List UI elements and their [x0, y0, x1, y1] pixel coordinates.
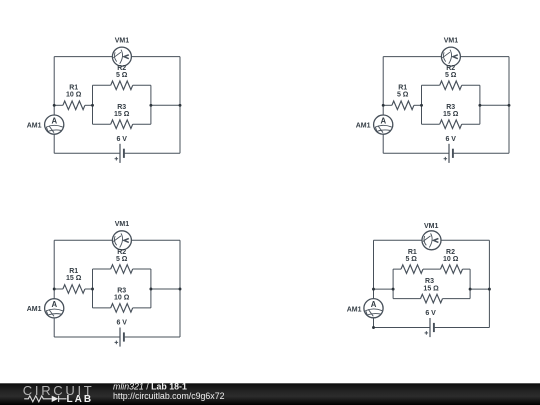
- wire right: [488, 240, 490, 327]
- svg-text:10 Ω: 10 Ω: [66, 92, 82, 99]
- wire left (ammeter to bottom corner): [53, 134, 55, 153]
- wire box top branch: [393, 268, 470, 270]
- svg-text:R1: R1: [69, 85, 78, 92]
- wire box left edge: [392, 269, 394, 299]
- wire R1 to box: [414, 104, 422, 106]
- wire box right edge: [150, 85, 152, 124]
- wire top (right of VM1): [441, 239, 489, 241]
- wire left (ammeter to bottom corner): [53, 318, 55, 337]
- wire R1 to box: [85, 288, 93, 290]
- ammeter AM1: [45, 299, 64, 318]
- voltmeter VM1: [422, 231, 441, 250]
- svg-text:6 V: 6 V: [116, 320, 127, 327]
- resistor R2: [111, 265, 133, 274]
- footer bar: [0, 383, 540, 405]
- svg-text:R2: R2: [446, 65, 455, 72]
- wire node to box: [374, 288, 394, 290]
- node bottom left junction: [372, 326, 375, 329]
- CircuitLab logo diode triangle: [52, 396, 59, 402]
- battery V1 6V: [115, 328, 124, 347]
- wire left (top corner to ammeter): [53, 240, 55, 298]
- node right junction: [488, 288, 491, 291]
- wire right: [179, 57, 181, 154]
- svg-text:6 V: 6 V: [116, 136, 127, 143]
- svg-text:R2: R2: [117, 249, 126, 256]
- ammeter AM1: [374, 115, 393, 134]
- node left junction: [53, 104, 56, 107]
- svg-text:R3: R3: [425, 278, 434, 285]
- wire box to right wire: [151, 104, 180, 106]
- wire box top branch: [422, 84, 480, 86]
- resistor R2: [440, 81, 462, 90]
- node box left: [91, 104, 94, 107]
- node right junction: [508, 104, 511, 107]
- svg-text:AM1: AM1: [27, 306, 42, 313]
- wire top (left of VM1): [54, 239, 112, 241]
- svg-text:R2: R2: [117, 65, 126, 72]
- node box left: [91, 288, 94, 291]
- node box right: [149, 288, 152, 291]
- wire box to right wire: [470, 288, 489, 290]
- wire top (right of VM1): [460, 56, 509, 58]
- wire bottom (to battery): [54, 152, 120, 154]
- svg-text:15 Ω: 15 Ω: [443, 111, 459, 118]
- svg-text:VM1: VM1: [424, 223, 439, 230]
- node right junction: [179, 104, 182, 107]
- node box left: [392, 288, 395, 291]
- voltmeter VM1: [112, 231, 131, 250]
- wire left (ammeter to bottom corner): [373, 318, 375, 328]
- svg-text:5 Ω: 5 Ω: [116, 72, 128, 79]
- wire top (right of VM1): [131, 239, 180, 241]
- wire box right edge: [469, 269, 471, 299]
- wire box top branch: [93, 84, 151, 86]
- wire right: [508, 57, 510, 154]
- ammeter AM1: [364, 299, 383, 318]
- voltmeter VM1: [441, 47, 460, 66]
- svg-text:10 Ω: 10 Ω: [443, 256, 459, 263]
- wire box bottom branch: [93, 307, 151, 309]
- resistor R1: [392, 101, 414, 110]
- wire top (right of VM1): [131, 56, 180, 58]
- resistor R1: [401, 265, 423, 274]
- node right junction: [179, 288, 182, 291]
- svg-text:AM1: AM1: [27, 122, 42, 129]
- svg-text:R2: R2: [446, 249, 455, 256]
- wire box left edge: [421, 85, 423, 124]
- svg-text:AM1: AM1: [356, 122, 371, 129]
- wire box right edge: [150, 269, 152, 308]
- resistor R2: [111, 81, 133, 90]
- wire node A to R1: [383, 104, 392, 106]
- wire top (left of VM1): [383, 56, 441, 58]
- node box left: [420, 104, 423, 107]
- svg-text:5 Ω: 5 Ω: [116, 256, 128, 263]
- svg-text:5 Ω: 5 Ω: [445, 72, 457, 79]
- svg-text:VM1: VM1: [444, 37, 459, 44]
- battery V1 6V: [425, 318, 434, 337]
- CircuitLab logo resistor-diode glyph: [24, 396, 66, 402]
- resistor R3: [111, 120, 133, 129]
- wire bottom (to battery): [374, 327, 431, 329]
- resistor R1: [63, 101, 85, 110]
- svg-text:R1: R1: [408, 249, 417, 256]
- wire bottom (battery to corner): [453, 152, 509, 154]
- resistor R2: [441, 265, 463, 274]
- node left junction: [382, 104, 385, 107]
- svg-text:6 V: 6 V: [425, 310, 436, 317]
- svg-text:10 Ω: 10 Ω: [114, 295, 130, 302]
- svg-text:R1: R1: [398, 85, 407, 92]
- wire bottom (to battery): [383, 152, 449, 154]
- wire node A to R1: [54, 104, 63, 106]
- wire bottom (to battery): [54, 336, 120, 338]
- wire left (top corner to node): [373, 240, 375, 298]
- voltmeter VM1: [112, 47, 131, 66]
- wire bottom (battery to corner): [124, 152, 180, 154]
- wire box bottom branch: [393, 298, 470, 300]
- svg-text:VM1: VM1: [115, 37, 130, 44]
- wire box left edge: [92, 269, 94, 308]
- resistor R3: [111, 304, 133, 313]
- svg-text:15 Ω: 15 Ω: [114, 111, 130, 118]
- wire top (left of VM1): [54, 56, 112, 58]
- svg-text:LAB: LAB: [67, 394, 94, 405]
- resistor R1: [63, 285, 85, 294]
- svg-text:AM1: AM1: [347, 306, 362, 313]
- node box right: [469, 288, 472, 291]
- wire top (left of VM1): [374, 239, 423, 241]
- ammeter AM1: [45, 115, 64, 134]
- wire box bottom branch: [93, 123, 151, 125]
- wire R1 to box: [85, 104, 93, 106]
- resistor R3: [440, 120, 462, 129]
- wire box bottom branch: [422, 123, 480, 125]
- wire left (top corner to ammeter): [382, 57, 384, 115]
- wire node A to R1: [54, 288, 63, 290]
- wire box right edge: [479, 85, 481, 124]
- node left junction: [53, 288, 56, 291]
- wire box to right wire: [480, 104, 509, 106]
- wire box to right wire: [151, 288, 180, 290]
- svg-text:15 Ω: 15 Ω: [423, 285, 439, 292]
- svg-text:6 V: 6 V: [445, 136, 456, 143]
- wire right: [179, 240, 181, 337]
- node box right: [478, 104, 481, 107]
- svg-text:5 Ω: 5 Ω: [397, 92, 409, 99]
- battery V1 6V: [115, 144, 124, 163]
- node left junction: [372, 288, 375, 291]
- svg-text:R1: R1: [69, 268, 78, 275]
- svg-text:5 Ω: 5 Ω: [405, 256, 417, 263]
- wire box left edge: [92, 85, 94, 124]
- svg-text:mlin321 / Lab 18-1: mlin321 / Lab 18-1: [113, 381, 187, 391]
- wire left (top corner to ammeter): [53, 57, 55, 115]
- wire left (ammeter to bottom corner): [382, 134, 384, 153]
- svg-text:15 Ω: 15 Ω: [66, 275, 82, 282]
- wire box top branch: [93, 268, 151, 270]
- resistor R3: [421, 294, 443, 303]
- wire bottom (battery to corner): [434, 327, 490, 329]
- svg-text:VM1: VM1: [115, 221, 130, 228]
- wire bottom (battery to corner): [124, 336, 180, 338]
- svg-text:http://circuitlab.com/c9g6x72: http://circuitlab.com/c9g6x72: [113, 391, 225, 401]
- battery V1 6V: [444, 144, 453, 163]
- node box right: [149, 104, 152, 107]
